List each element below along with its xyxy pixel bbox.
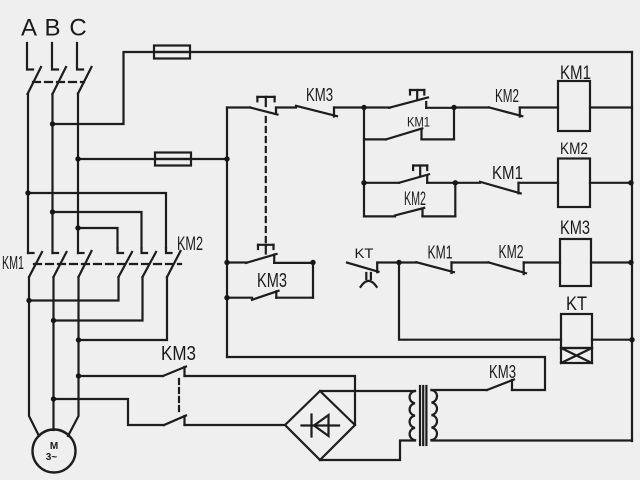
wire bridge top to transformer primary	[320, 390, 415, 392]
wire node to SB2 and SB2 to node	[364, 106, 454, 109]
svg-text:KT: KT	[566, 294, 587, 315]
wire KM2 pole2 lower + crossover to pole2	[54, 277, 143, 321]
timer KT delay element box	[561, 348, 592, 363]
svg-text:KM1: KM1	[2, 253, 24, 273]
wire SB3 to node	[427, 182, 455, 184]
wire KM1 NC to KM2 NC	[452, 261, 489, 263]
fuse FU1	[154, 46, 190, 59]
wire KM2 NC to KM3 coil	[524, 261, 560, 263]
contact KM2 NC rung1	[489, 107, 522, 116]
svg-text:KM1: KM1	[428, 243, 453, 263]
node crossover pole2	[51, 318, 56, 323]
transformer TC core	[420, 386, 426, 445]
svg-text:KM1: KM1	[407, 114, 430, 130]
svg-text:KM1: KM1	[560, 63, 591, 84]
contact KM1 NC rung3	[416, 262, 454, 273]
coil KM1	[558, 81, 590, 131]
wire phase C vertical	[77, 94, 79, 254]
node left bus KM3 aux	[224, 295, 229, 300]
contact KM2 aux NO self-hold branch	[364, 183, 455, 217]
svg-text:C: C	[69, 15, 86, 42]
node KT coil tap	[396, 260, 401, 265]
wire fuse FU2 feed from phase B to riser	[53, 52, 191, 124]
wire phase A vertical	[27, 94, 29, 253]
node phase B / KM2 feed	[50, 209, 55, 214]
wire phase C feed to KM2 pole1	[78, 228, 118, 248]
svg-text:B: B	[44, 15, 60, 42]
wire KM2 NC to KM1 coil	[520, 106, 558, 108]
wire KM1 pole1 lower	[29, 277, 39, 436]
svg-text:KM1: KM1	[492, 163, 523, 183]
wire KM2 pole1 lower + crossover to pole1	[29, 277, 119, 301]
coil KM3	[560, 239, 591, 286]
node right bus rung3	[628, 260, 633, 265]
start button SB2 actuator	[410, 90, 424, 100]
node right bus KT	[629, 337, 634, 342]
transformer TC secondary winding	[432, 390, 438, 440]
svg-text:KM3: KM3	[489, 362, 516, 382]
svg-text:KM2: KM2	[495, 86, 519, 106]
brake KM3 mechanical link (dashed)	[178, 379, 180, 414]
stop button SB1 pole1 NC contact	[250, 108, 278, 115]
wire phase A feed to KM2 pole3	[28, 193, 166, 248]
transformer TC primary winding	[410, 391, 415, 440]
brake contact KM3 pole2	[164, 416, 186, 426]
svg-text:KM2: KM2	[499, 242, 524, 262]
wire SB1 pole2 to node	[274, 262, 313, 264]
node left bus / FU2	[224, 156, 229, 161]
fuse FU2	[155, 153, 191, 166]
node KM3 aux / rung3	[310, 260, 315, 265]
svg-text:KT: KT	[355, 245, 374, 261]
svg-text:A: A	[21, 15, 37, 42]
start button SB3 NO contact	[399, 174, 429, 183]
contact KM3 NC rung1	[296, 106, 337, 117]
brake contact KM3 pole1 wire from phase	[79, 375, 164, 377]
knife switch QS mechanical link (dashed)	[33, 81, 84, 83]
svg-text:KM2: KM2	[404, 189, 426, 210]
wire node to KM1 NC	[455, 182, 480, 184]
svg-text:KM3: KM3	[161, 343, 196, 365]
contactor KM2 main pole 2	[142, 248, 157, 277]
contact KM1 NC rung2	[480, 182, 521, 194]
node crossover pole1	[26, 298, 31, 303]
svg-text:M: M	[50, 441, 58, 452]
contactor KM1 main pole 1	[28, 252, 42, 277]
node crossover pole3	[76, 337, 81, 342]
wire rung3 from left bus	[227, 261, 247, 263]
stop button SB1 link (dashed)	[265, 117, 267, 242]
wire KT contact to KM1 NC	[377, 261, 416, 263]
wire KM3 contact up to bus corner	[227, 357, 545, 390]
bridge diode symbol	[302, 415, 340, 437]
start button SB3 actuator	[413, 166, 427, 177]
svg-text:KM3: KM3	[306, 85, 333, 105]
node right bus rung2	[628, 180, 633, 185]
time contact KT NC delayed rung3	[347, 263, 379, 287]
wire KM2 pole3 lower + crossover to pole3	[79, 277, 168, 340]
stop button SB1 pole2 actuator	[258, 245, 274, 254]
contact KM3 NO bottom-right	[487, 380, 514, 391]
wire KM3 coil to right bus	[591, 261, 632, 263]
wire left control bus	[226, 108, 228, 358]
svg-text:KM3: KM3	[257, 270, 287, 292]
stop button SB1 pole1 actuator	[257, 97, 274, 106]
contact KM3 aux NO branch	[227, 263, 313, 300]
contact KM2 NC rung3	[489, 262, 526, 274]
svg-text:KM3: KM3	[560, 218, 590, 239]
contactor KM1 main pole 3	[78, 251, 92, 277]
node rung2 parallel right	[453, 180, 458, 185]
contactor KM2 main pole 3	[166, 248, 181, 277]
wire KT coil to right bus	[592, 339, 632, 341]
wire KM1 coil to right bus	[590, 106, 632, 108]
brake contact KM3 pole1	[163, 367, 186, 377]
motor M circle	[33, 430, 76, 473]
wire bridge bottom to transformer primary bottom	[320, 441, 415, 461]
wire KM1 NC to KM2 coil	[519, 182, 559, 184]
node rung2 parallel left	[361, 180, 366, 185]
wire KT coil feed riser	[399, 263, 561, 340]
stop button SB1 pole2 NO contact	[246, 254, 277, 263]
wire KM2 coil to right bus	[590, 182, 632, 184]
contactor KM2 main pole 1	[118, 248, 133, 277]
coil KM2	[558, 159, 590, 208]
wire rung1 from left bus	[227, 106, 250, 108]
svg-text:3~: 3~	[46, 452, 58, 463]
coil KT	[561, 314, 592, 348]
wire FU1 to right bus	[154, 51, 632, 53]
knife switch QS pole B	[52, 43, 66, 94]
KM1-KM2 main contacts mechanical link (dashed)	[34, 263, 181, 265]
wire node to KM2 NC	[454, 106, 489, 108]
wire KM1 pole3 lower	[68, 277, 79, 436]
wire rung2 from middle bus	[364, 182, 399, 184]
node phase C / KM2 feed	[75, 225, 80, 230]
wire middle parallel bus	[363, 108, 365, 217]
wire phase C to fuse FU2	[78, 158, 191, 160]
node phase C / FU2 tap	[75, 156, 80, 161]
wire right control bus	[631, 52, 633, 441]
wire secondary top to KM3 contact	[432, 389, 488, 391]
node phase A / KM2 feed	[25, 190, 30, 195]
node brake pole2 tap	[51, 396, 56, 401]
knife switch QS pole A	[27, 43, 41, 94]
bridge rectifier VC diamond	[285, 391, 355, 460]
wire phase B feed to KM2 pole2	[53, 212, 142, 248]
wire KM1 pole2 lower	[52, 277, 54, 430]
wire phase B vertical	[51, 94, 53, 253]
node brake pole1 tap	[76, 373, 81, 378]
node rung1 parallel left	[361, 105, 366, 110]
svg-text:KM2: KM2	[560, 139, 588, 158]
node rung1 parallel right	[451, 105, 456, 110]
node left bus rung3	[224, 260, 229, 265]
contact KM1 aux NO self-hold branch	[364, 108, 454, 140]
node phase B / FU1 tap	[50, 121, 55, 126]
knife switch QS pole C	[77, 43, 92, 94]
wire KM3 pole1 to bridge right corner	[185, 376, 356, 425]
brake contact KM3 pole2 feed wire	[54, 399, 165, 425]
wire KM3 pole2 to bridge left corner	[185, 424, 286, 426]
start button SB2 NO contact	[389, 98, 428, 108]
wire FU2 to left bus	[155, 158, 227, 160]
contactor KM1 main pole 2	[53, 252, 67, 277]
svg-text:KM2: KM2	[177, 234, 203, 255]
wire SB1 to KM3 NC	[276, 106, 296, 108]
wire KM3 NC to node	[334, 106, 364, 108]
wire secondary bottom to right bus	[432, 439, 633, 441]
